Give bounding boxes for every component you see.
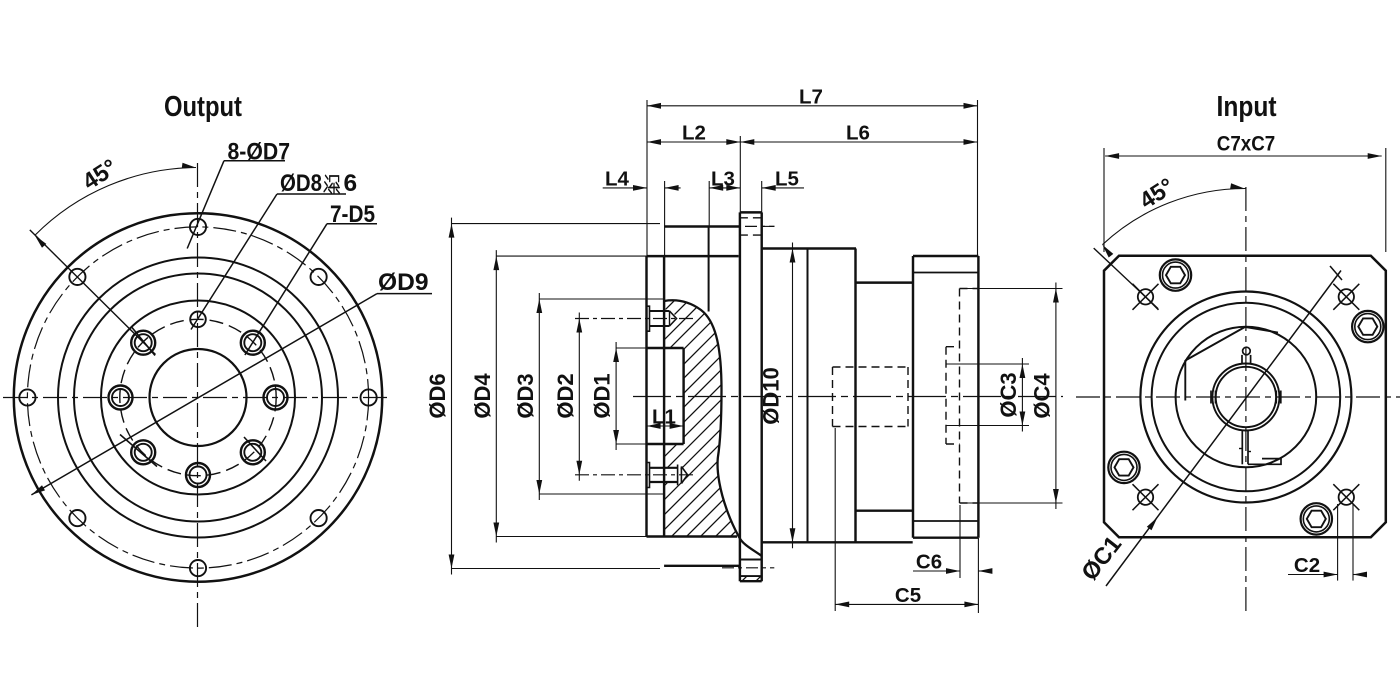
housing bottom edge D6 — [664, 565, 740, 567]
output circle hub ØD3 — [101, 301, 295, 495]
input block bottom edge — [913, 536, 978, 538]
hex socket screw #4 — [1301, 503, 1332, 534]
small cylinder bottom edge — [856, 509, 914, 511]
corner hole C2 #1 — [1133, 284, 1159, 310]
svg-text:6: 6 — [344, 170, 358, 197]
leader ØC1 diagonal — [1106, 271, 1341, 587]
svg-text:ØD6: ØD6 — [425, 373, 450, 418]
input collar circle — [1176, 327, 1317, 468]
45deg radial line — [30, 230, 156, 355]
svg-text:L3: L3 — [711, 167, 735, 190]
D10 cylinder bottom edge — [762, 541, 913, 543]
svg-text:ØD2: ØD2 — [553, 373, 578, 418]
input 45deg arc — [1102, 188, 1246, 244]
screw hole 7-D5 #2 — [241, 331, 265, 355]
output circle D4 housing step — [58, 258, 338, 538]
section centerline — [633, 396, 1063, 398]
svg-text:L4: L4 — [605, 167, 630, 190]
extension line C3 bottom — [946, 425, 1029, 427]
mounting plate left face — [739, 212, 741, 581]
input block top edge — [913, 255, 978, 257]
extension C7 left — [1103, 148, 1105, 252]
corner hole C2 #3 — [1133, 484, 1159, 510]
screw hole 7-D5 #6 — [186, 463, 210, 487]
top screw hole body — [650, 310, 670, 312]
mounting plate right face — [760, 212, 762, 581]
svg-text:C2: C2 — [1294, 554, 1320, 577]
input 45deg radial — [1094, 248, 1158, 309]
svg-text:L1: L1 — [652, 406, 676, 429]
bell trumpet curve — [664, 300, 761, 556]
dimension C2 line — [1288, 574, 1338, 576]
mounting hole 8-ØD7 #2 — [311, 269, 327, 285]
extension C7 right — [1385, 148, 1387, 252]
dimension ØC3 line — [1021, 358, 1023, 432]
leader ØD9 arrowhead — [31, 485, 45, 495]
extension 761.7 vertical — [761, 181, 763, 212]
bottom screw hole counterbore lip — [647, 463, 650, 488]
input 45deg arc arrow right — [1230, 183, 1244, 189]
bell plate left face — [645, 256, 647, 536]
plate top bolt axis — [745, 225, 775, 227]
output circle bell flange edge — [74, 274, 322, 522]
bottom screw axis — [575, 474, 696, 476]
hidden pilot recess C4 — [959, 289, 961, 504]
extension line C4 bottom — [960, 502, 1063, 504]
extension line C4 top — [960, 288, 1063, 290]
mounting plate bottom edge — [740, 580, 762, 582]
svg-text:L2: L2 — [682, 122, 706, 145]
extension 709.2 vertical — [708, 181, 710, 227]
bore right wall — [682, 348, 684, 444]
screw hole 7-D5 #7 — [241, 440, 265, 464]
hex socket screw #3 — [1108, 452, 1139, 483]
extension line C3 top — [946, 363, 1029, 365]
screw hole 7-D5 #1 — [264, 386, 288, 410]
leader ØC1 tick — [1330, 266, 1342, 280]
top screw drill cone — [670, 311, 677, 326]
input 45deg arc arrow left — [1102, 245, 1113, 258]
collar clamp screw circle — [1243, 347, 1251, 355]
extension 978 vertical low — [977, 538, 979, 613]
center hole ØD8 depth6 — [190, 312, 206, 328]
screw hole 7-D5 #3 — [131, 331, 155, 355]
plate bottom hole top edge — [740, 559, 762, 561]
input bore circle — [1216, 367, 1276, 427]
dimension C5 line — [835, 603, 978, 605]
dimension ØD10 line — [792, 243, 794, 549]
dimension ØD4 line — [495, 250, 497, 542]
mounting hole 8-ØD7 #8 — [69, 269, 85, 285]
output screw bolt circle ØD2 dashed — [120, 319, 276, 475]
dimension L5 line — [762, 187, 804, 189]
mounting plate top edge — [740, 211, 762, 213]
extension 835 vertical — [834, 428, 836, 611]
leader 8-ØD7 — [224, 160, 285, 162]
mounting hole 8-ØD7 #5 — [190, 560, 206, 576]
leader ØD9 diagonal — [31, 294, 377, 495]
output bolt circle ØD9 dash-dot — [27, 227, 368, 568]
mounting hole 8-ØD7 #1 — [190, 219, 206, 235]
dimension C7xC7 line — [1105, 155, 1382, 157]
collar flat left vertical — [1184, 360, 1186, 401]
bell plate top edge D4 — [647, 255, 739, 257]
D10 cylinder seam — [807, 249, 809, 543]
input block bottom chamfer line — [913, 520, 978, 522]
extension 664.6 vertical — [664, 181, 666, 256]
mounting hole 8-ØD7 #4 — [311, 510, 327, 526]
svg-text:ØD4: ØD4 — [470, 373, 495, 419]
svg-text:Input: Input — [1217, 91, 1277, 123]
input block top chamfer line — [913, 272, 978, 274]
corner hole C2 #4 — [1333, 484, 1359, 510]
bell plate right face — [663, 256, 665, 536]
dimension L3 line — [709, 187, 740, 189]
svg-text:C7xC7: C7xC7 — [1217, 133, 1275, 156]
extension 977.5 vertical — [977, 100, 979, 255]
output vertical centerline — [197, 163, 199, 631]
45deg arc arrow right — [182, 163, 196, 169]
dimension L4 line — [603, 187, 647, 189]
hidden collar cavity — [945, 347, 947, 444]
keyway mark right — [1275, 391, 1277, 404]
leader ØD8deep6 — [277, 193, 346, 195]
svg-text:ØC3: ØC3 — [996, 372, 1021, 417]
svg-text:ØD10: ØD10 — [759, 367, 784, 424]
screw hole 7-D5 #4 — [109, 386, 133, 410]
hidden bore small — [833, 366, 909, 368]
bell plate bottom edge D4 — [647, 535, 738, 537]
mounting hole 8-ØD7 #7 — [19, 389, 35, 405]
plate bottom hatch — [735, 568, 769, 588]
extension 740.3 vertical — [739, 136, 741, 212]
extension lines ØD6 — [452, 223, 661, 225]
bottom screw drill cone — [681, 467, 687, 484]
screw hole 7-D5 #5 — [131, 440, 155, 464]
input square flange outline — [1104, 256, 1386, 538]
slash mark TL D5 hole — [132, 328, 155, 356]
housing top edge D6 — [664, 225, 740, 227]
collar bottom-right notch — [1248, 459, 1281, 465]
dimension L7 line — [647, 105, 978, 107]
bore bottom edge — [647, 443, 684, 445]
plate bottom bolt axis — [722, 567, 774, 569]
svg-text:Output: Output — [164, 91, 242, 123]
svg-text:ØD8: ØD8 — [280, 170, 322, 197]
extension C2 left — [1337, 504, 1339, 581]
plate top bolt hole hidden — [740, 217, 762, 219]
input block left face — [912, 256, 914, 538]
mounting hole 8-ØD7 #3 — [361, 389, 377, 405]
bottom screw hole body — [650, 467, 678, 469]
mounting hole 8-ØD7 #6 — [69, 510, 85, 526]
D10 cylinder right face — [854, 249, 856, 543]
svg-text:ØD1: ØD1 — [590, 373, 615, 418]
plate bottom hole bottom edge — [740, 575, 762, 577]
extension C2 right — [1352, 504, 1354, 581]
leader 7-D5 — [327, 223, 377, 225]
input pilot circle ØC1 — [1140, 292, 1351, 503]
45deg arc arrow left — [35, 235, 47, 247]
svg-text:C6: C6 — [916, 551, 942, 574]
input circle mid — [1152, 303, 1341, 492]
dimension L1 line — [647, 425, 684, 427]
bell section hatching — [420, 290, 1006, 540]
collar bottom slit — [1241, 430, 1243, 464]
svg-text:C5: C5 — [895, 584, 921, 607]
dimension ØC4 line — [1055, 283, 1057, 510]
housing seam — [708, 227, 710, 312]
small cylinder top edge — [856, 281, 914, 283]
svg-text:L7: L7 — [799, 85, 823, 108]
D10 cylinder top edge — [762, 247, 856, 249]
label ØD8deep6 — [280, 170, 357, 197]
dimension C6 line — [913, 570, 960, 572]
extension 960 vertical — [959, 505, 961, 578]
svg-text:ØC4: ØC4 — [1029, 373, 1054, 419]
collar roof chord — [1185, 327, 1245, 361]
dimension ØD6 line — [451, 218, 453, 575]
top screw axis — [575, 318, 694, 320]
input bore chamfer circle — [1212, 364, 1279, 431]
extension lines ØD1 — [616, 347, 647, 349]
svg-text:ØD9: ØD9 — [378, 269, 429, 296]
extension lines ØD4 — [496, 255, 646, 257]
input horizontal centerline — [1076, 396, 1400, 398]
svg-text:ØD3: ØD3 — [513, 373, 538, 418]
svg-text:L6: L6 — [846, 122, 870, 145]
leader ØD9 shoulder — [377, 293, 432, 295]
hex socket screw #2 — [1160, 259, 1191, 290]
hex socket screw #1 — [1352, 311, 1383, 342]
input block right face — [977, 256, 979, 538]
output shaft bore ØD1 — [150, 349, 247, 446]
output flange outer circle ØD6 — [14, 213, 382, 581]
dimension L6 line — [740, 141, 977, 143]
bore top edge — [647, 347, 684, 349]
input vertical centerline — [1245, 187, 1247, 612]
top screw hole counterbore lip — [647, 306, 650, 331]
dimension ØD2 line — [578, 313, 580, 481]
dimension L2 line — [647, 141, 740, 143]
corner hole C2 #2 — [1333, 284, 1359, 310]
dimension ØD3 line — [538, 293, 540, 500]
45deg dimension arc — [35, 168, 196, 236]
output horizontal centerline — [3, 397, 391, 399]
extension lines ØD3 — [539, 298, 664, 300]
dimension ØD1 line — [615, 342, 617, 450]
slash mark BL D5 hole — [120, 435, 157, 467]
keyway mark left — [1210, 391, 1212, 404]
collar clamp tab stem — [1241, 355, 1243, 365]
extension 647 vertical — [646, 100, 648, 256]
slash mark BR D5 hole — [244, 437, 266, 461]
svg-text:L5: L5 — [775, 167, 799, 190]
